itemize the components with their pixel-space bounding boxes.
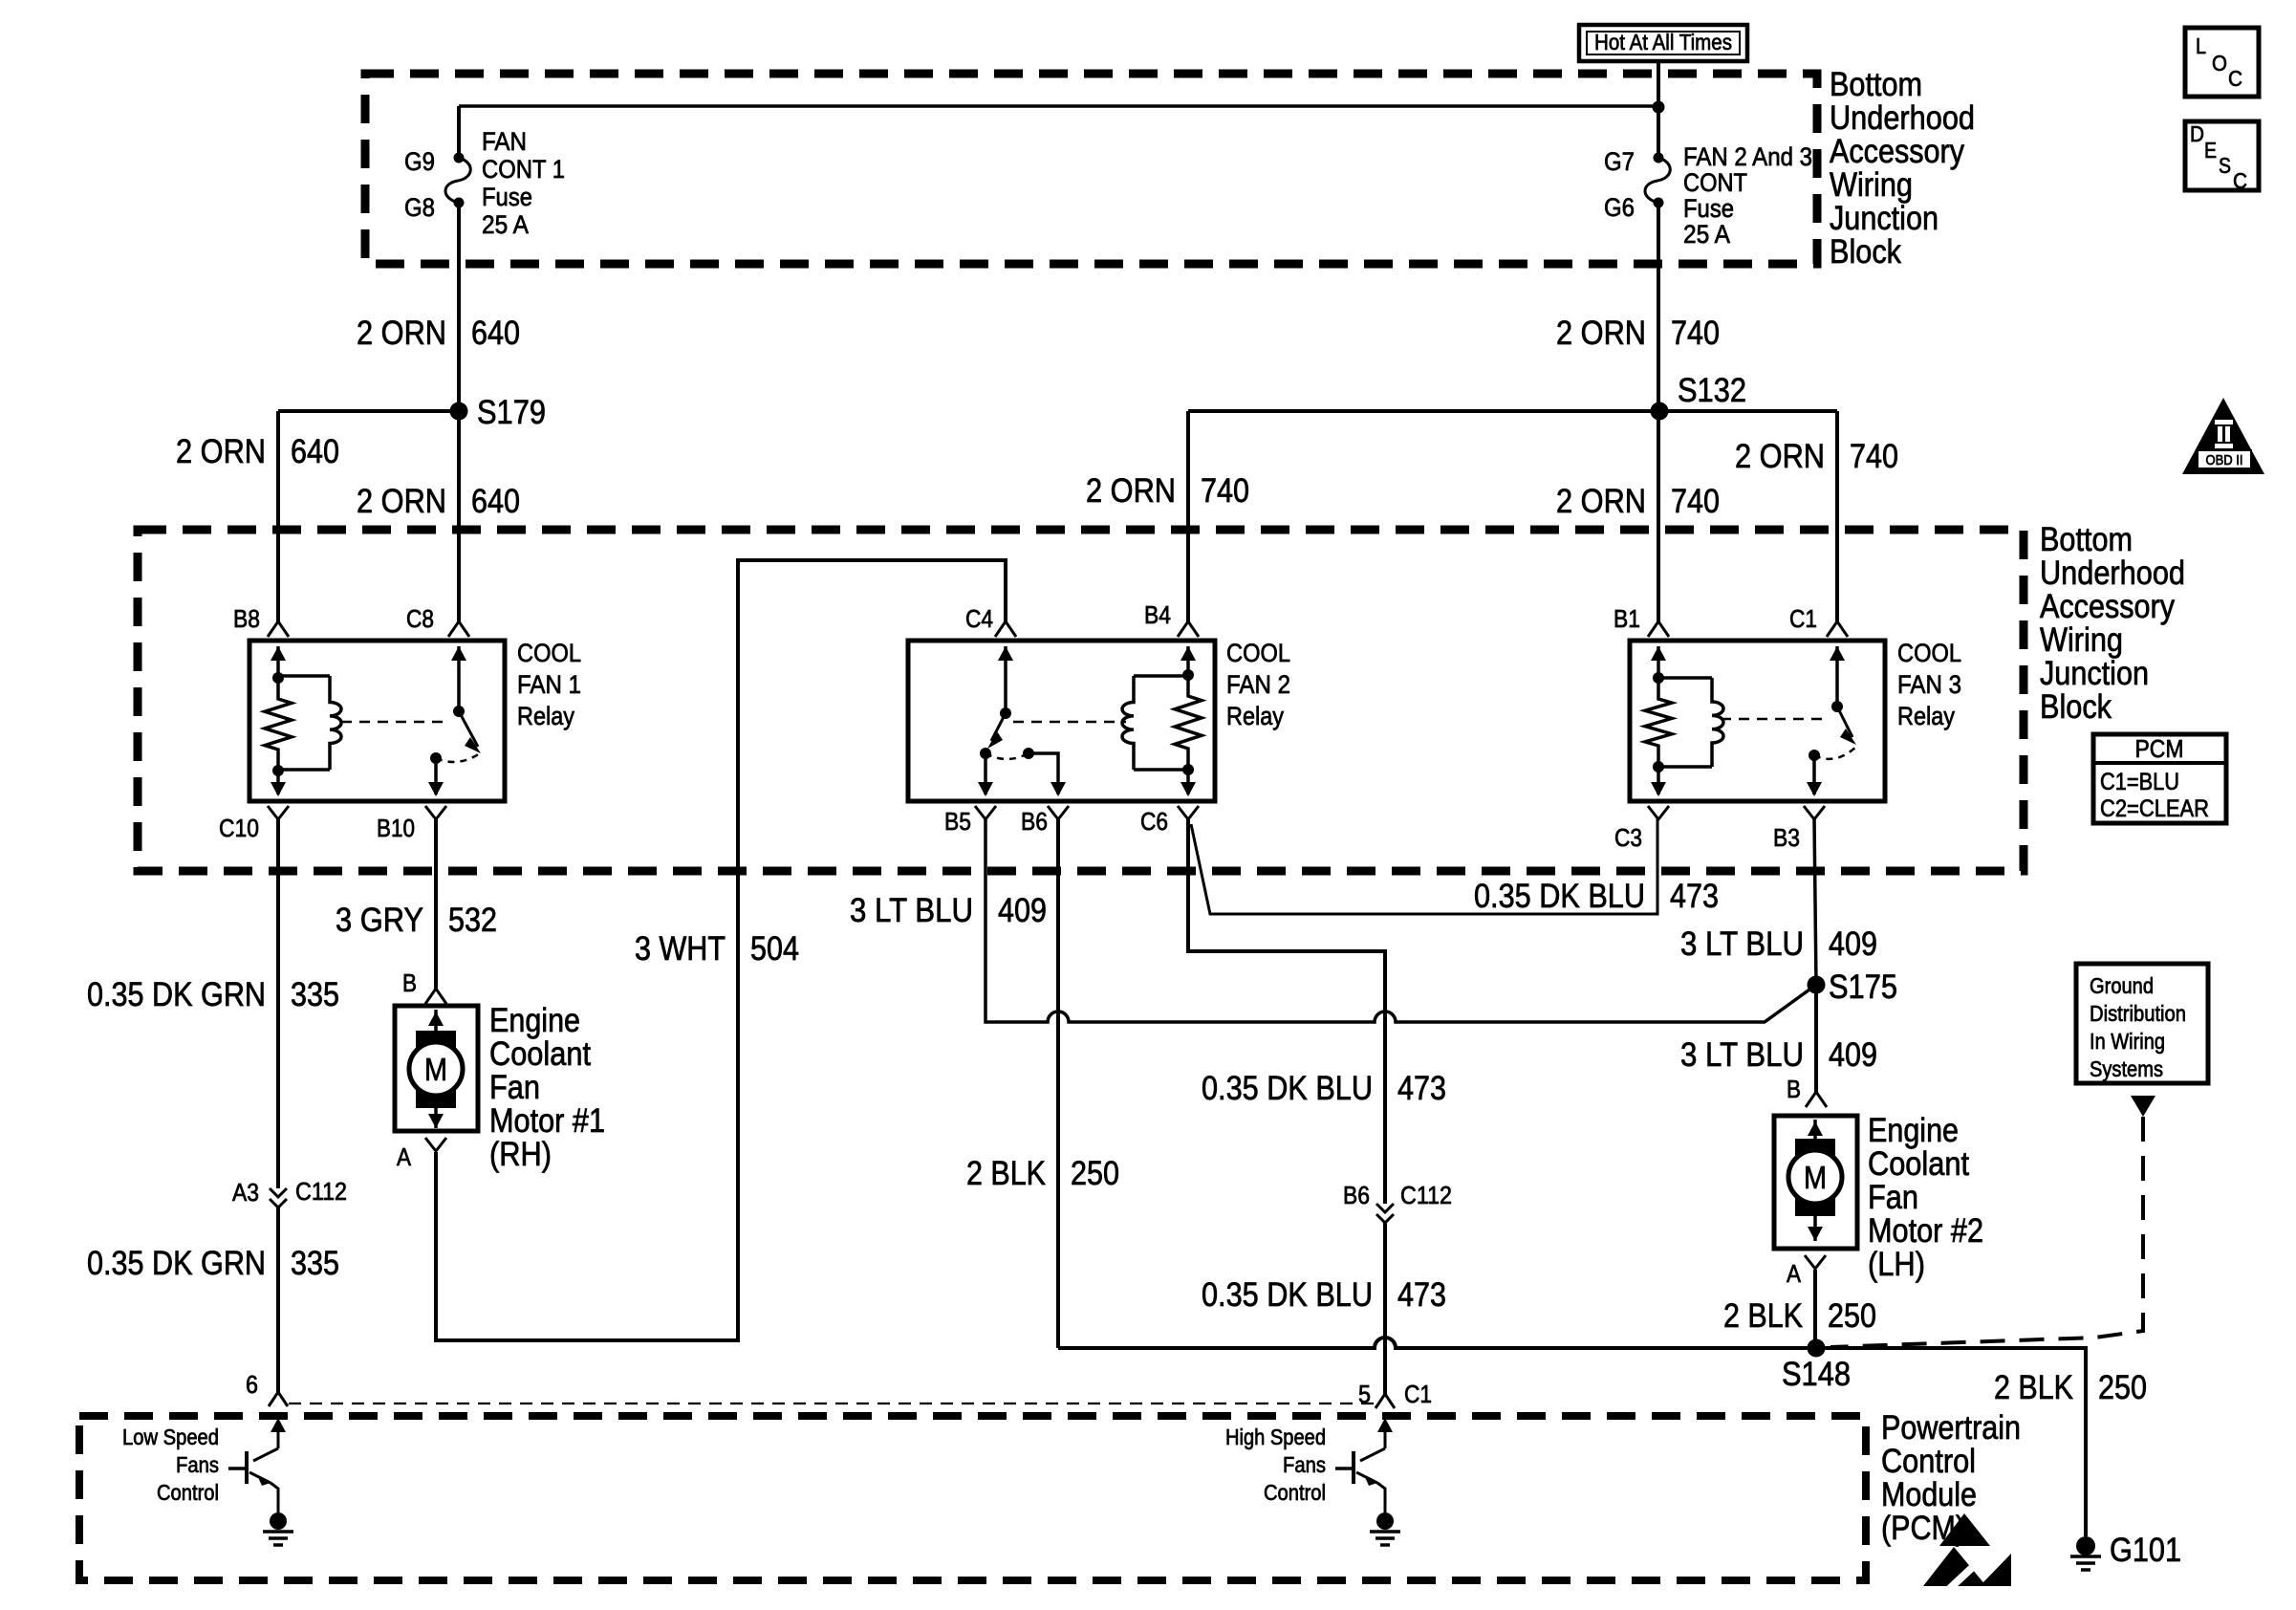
label: FAN CONT 1 Fuse 25 A	[482, 127, 565, 239]
svg-text:250: 250	[2098, 1369, 2147, 1406]
relay K3 switch pivot dot	[1831, 701, 1843, 712]
node: junction dot at fuse feed split	[1653, 101, 1665, 114]
wire: relay3 B3 down to S175	[1814, 818, 1816, 985]
svg-text:FAN 2: FAN 2	[1226, 670, 1290, 699]
svg-text:PCM: PCM	[2135, 734, 2184, 763]
svg-text:G101: G101	[2110, 1532, 2181, 1569]
relay K1 switch contact dot	[430, 752, 442, 764]
svg-text:M: M	[424, 1052, 447, 1087]
wire: motor2 A down to S148 (2 BLK 250)	[1813, 1270, 1817, 1348]
svg-text:G8: G8	[404, 193, 435, 222]
relay K2 pin B5 connector chevron	[975, 806, 996, 819]
relay K2 contact-out lead with arrow (B5)	[978, 753, 993, 796]
relay K2 coil	[1122, 676, 1134, 770]
label C8	[406, 604, 434, 633]
svg-text:Motor #1: Motor #1	[489, 1102, 605, 1140]
svg-text:C8: C8	[406, 604, 434, 633]
relay K2 contact link to B6	[1029, 753, 1066, 796]
svg-text:2 ORN: 2 ORN	[1556, 483, 1646, 520]
fuse F2 terminal dot G6	[1654, 198, 1664, 208]
svg-text:Hot At All Times: Hot At All Times	[1594, 30, 1732, 54]
fuse F1 terminal dot G9	[454, 153, 465, 163]
relay K2 switch common lead with arrow (C4)	[998, 646, 1013, 713]
relay K2 pin B4 connector chevron	[1178, 621, 1199, 637]
motor M2 feed arrow top	[1808, 1120, 1823, 1142]
relay K3 pin B1 connector chevron	[1648, 621, 1669, 637]
svg-text:3 LT BLU: 3 LT BLU	[1680, 1036, 1804, 1074]
relay K3 contact-out lead with arrow (B3)	[1807, 755, 1822, 796]
svg-text:FAN 1: FAN 1	[517, 670, 581, 699]
motor M2 box (Engine Coolant Fan Motor #2 LH)	[1774, 1116, 1857, 1249]
svg-text:Block: Block	[1830, 233, 1901, 271]
relay K2 coil link bottom	[1134, 768, 1188, 772]
relay K3 coil-in lead with arrow (B1)	[1651, 646, 1666, 678]
label B3	[1773, 823, 1800, 852]
svg-text:A: A	[1787, 1259, 1802, 1288]
svg-text:B6: B6	[1343, 1181, 1370, 1209]
svg-text:2 ORN: 2 ORN	[1735, 438, 1825, 475]
label B6 (C112)	[1343, 1181, 1370, 1209]
label: COOL FAN 3 Relay	[1897, 639, 1961, 730]
relay K3 pin B3 connector chevron	[1804, 806, 1825, 819]
svg-text:2 ORN: 2 ORN	[176, 433, 266, 470]
svg-text:6: 6	[246, 1370, 258, 1399]
relay K3 node dot top	[1653, 672, 1664, 684]
svg-text:Junction: Junction	[1830, 200, 1939, 237]
wire: ground bus 2 BLK 250 across (B6 run to S148 to G101 drop)	[1058, 1338, 2086, 1536]
svg-text:S132: S132	[1678, 372, 1746, 409]
label S175	[1829, 968, 1897, 1006]
relay K1 coil-in lead with arrow (B8)	[271, 646, 286, 678]
wire: left branch down to relay B8	[276, 411, 280, 622]
svg-text:504: 504	[750, 930, 799, 968]
svg-text:G6: G6	[1604, 193, 1635, 222]
junction block 1 dashed box (Bottom Underhood Accessory Wiring Junction Block)	[365, 74, 1817, 264]
svg-text:Powertrain: Powertrain	[1881, 1409, 2021, 1447]
svg-text:L: L	[2196, 33, 2206, 58]
splice S132 dot	[1651, 402, 1669, 421]
label: 2 BLK 250 (motor2 A)	[1723, 1297, 1876, 1335]
relay K2 resistor	[1175, 675, 1202, 770]
motor M2 pin A connector chevron	[1805, 1255, 1826, 1269]
label: 0.35 DK GRN 335 (upper)	[87, 976, 339, 1013]
svg-text:Ground: Ground	[2090, 973, 2154, 998]
svg-text:Coolant: Coolant	[1868, 1145, 1969, 1183]
splice S175 dot	[1808, 976, 1826, 994]
OBD II symbol triangle	[2182, 398, 2264, 474]
svg-text:3 LT BLU: 3 LT BLU	[850, 892, 973, 929]
label: FAN 2 And 3 CONT Fuse 25 A	[1683, 142, 1812, 249]
svg-text:Module: Module	[1881, 1476, 1977, 1513]
relay K2 pin C6 connector chevron	[1178, 806, 1199, 819]
label G8	[404, 193, 435, 222]
wire: C1 drop down to relay 3	[1835, 411, 1839, 622]
motor M1 pin B connector chevron	[425, 989, 446, 1004]
relay K1 mech linkage dashed	[341, 721, 445, 724]
svg-text:740: 740	[1671, 483, 1720, 520]
relay K2 pin C4 connector chevron	[995, 621, 1016, 637]
svg-text:335: 335	[291, 1245, 339, 1282]
relay K1 coil-out lead with arrow (C10)	[271, 771, 286, 796]
DESC reference box	[2185, 121, 2259, 193]
svg-text:C: C	[2233, 168, 2247, 193]
label C112 (left)	[295, 1177, 347, 1206]
svg-text:2 ORN: 2 ORN	[357, 483, 446, 520]
svg-text:C: C	[2228, 66, 2242, 91]
svg-text:Fans: Fans	[1283, 1452, 1326, 1477]
connector C112 pin B6 chevrons	[1376, 1204, 1394, 1223]
svg-text:3 LT BLU: 3 LT BLU	[1680, 925, 1804, 963]
label S132	[1678, 372, 1746, 409]
PCM pin 6 connector chevron	[269, 1392, 288, 1406]
svg-text:640: 640	[471, 483, 520, 520]
svg-text:Junction: Junction	[2040, 655, 2149, 692]
svg-text:FAN 2 And 3: FAN 2 And 3	[1683, 142, 1812, 171]
svg-text:Motor #2: Motor #2	[1868, 1212, 1983, 1250]
svg-text:2 BLK: 2 BLK	[1723, 1297, 1803, 1335]
svg-text:C1=BLU: C1=BLU	[2100, 769, 2179, 795]
relay K2 coil-in lead with arrow (B4)	[1180, 646, 1196, 675]
label: junction block 2 name	[2040, 521, 2185, 726]
svg-text:A3: A3	[232, 1178, 259, 1207]
svg-text:Underhood: Underhood	[1830, 99, 1975, 137]
svg-text:2 ORN: 2 ORN	[357, 315, 446, 352]
relay K3 coil-out lead with arrow (C3)	[1651, 767, 1666, 796]
relay K3 pin C3 connector chevron	[1648, 806, 1669, 819]
relay K3 box (COOL FAN 3 Relay)	[1630, 641, 1885, 801]
label: 3 WHT 504	[635, 930, 799, 968]
svg-text:C3: C3	[1614, 823, 1642, 852]
label: 2 ORN 640 (fuse1 to S179)	[357, 315, 520, 352]
ground distribution pointer arrowhead	[2131, 1096, 2155, 1117]
label: Engine Coolant Fan Motor #2 (LH)	[1868, 1112, 1983, 1283]
label: 3 LT BLU 409 (S175 to motor2)	[1680, 1036, 1877, 1074]
svg-text:473: 473	[1670, 878, 1719, 915]
label: 3 LT BLU 409 (B5)	[850, 892, 1047, 929]
label G101	[2110, 1532, 2181, 1569]
svg-text:C112: C112	[295, 1177, 347, 1206]
PCM connector thin dashed boundary	[289, 1403, 1374, 1404]
svg-text:409: 409	[1829, 1036, 1877, 1074]
transistor Q2 High Speed Fans Control driver	[1225, 1418, 1400, 1545]
svg-text:Engine: Engine	[1868, 1112, 1959, 1149]
svg-text:(LH): (LH)	[1868, 1246, 1925, 1283]
svg-text:Fuse: Fuse	[482, 183, 532, 211]
label B8	[233, 604, 260, 633]
svg-text:Engine: Engine	[489, 1002, 580, 1039]
svg-text:D: D	[2190, 121, 2204, 146]
motor M1 feed arrow top	[428, 1010, 444, 1033]
relay K1 node dot bottom	[272, 765, 284, 776]
svg-text:S175: S175	[1829, 968, 1897, 1006]
label: 0.35 DK BLU 473 (C6 to C3)	[1474, 878, 1719, 915]
label: 0.35 DK BLU 473 (lower run)	[1202, 1276, 1446, 1314]
wire: 3 WHT 504 run (relay2 C4 up, left, down to motor1 A bottom link)	[436, 560, 1006, 1340]
svg-text:C112: C112	[1400, 1181, 1452, 1209]
svg-text:CONT: CONT	[1683, 168, 1747, 197]
svg-text:473: 473	[1397, 1070, 1446, 1107]
label: 3 LT BLU 409 (B3 upper)	[1680, 925, 1877, 963]
svg-text:Bottom: Bottom	[2040, 521, 2133, 558]
relay K1 pin B10 connector chevron	[425, 806, 446, 819]
Ground Distribution In Wiring Systems reference box	[2076, 964, 2208, 1083]
PCM dashed box (Powertrain Control Module)	[79, 1416, 1866, 1580]
svg-text:473: 473	[1397, 1276, 1446, 1314]
label: COOL FAN 2 Relay	[1226, 639, 1290, 730]
svg-text:Relay: Relay	[517, 702, 574, 730]
relay K2 pin B6 connector chevron	[1048, 806, 1069, 819]
relay K1 switch dashed travel arc	[436, 753, 480, 762]
svg-text:Control: Control	[1881, 1443, 1976, 1480]
svg-text:2 BLK: 2 BLK	[966, 1155, 1046, 1192]
svg-text:Control: Control	[157, 1480, 219, 1505]
svg-text:COOL: COOL	[1226, 639, 1290, 667]
relay K1 contact-out lead with arrow (B10)	[428, 758, 444, 796]
label C6	[1140, 807, 1168, 836]
label: 2 BLK 250 (B6)	[966, 1155, 1119, 1192]
svg-text:OBD II: OBD II	[2206, 452, 2243, 468]
svg-text:B1: B1	[1614, 604, 1640, 633]
svg-text:CONT 1: CONT 1	[482, 155, 565, 184]
wire: fuse 1 output G8 down to S179	[457, 203, 461, 411]
label: 2 ORN 640 (left branch)	[176, 433, 339, 470]
wire: feed across to FAN CONT 1 fuse	[459, 104, 1658, 108]
label B4	[1144, 600, 1171, 629]
label B10	[377, 814, 415, 842]
label B6	[1021, 807, 1048, 836]
svg-text:Underhood: Underhood	[2040, 555, 2185, 592]
svg-text:409: 409	[1829, 925, 1877, 963]
motor M2 pin B connector chevron	[1806, 1092, 1827, 1107]
svg-text:FAN 3: FAN 3	[1897, 670, 1961, 699]
relay K2 coil-out lead with arrow (C6)	[1180, 770, 1196, 796]
wire: S175 down to motor2 B	[1814, 985, 1818, 1093]
relay K1 box (COOL FAN 1 Relay)	[249, 641, 505, 801]
svg-text:640: 640	[471, 315, 520, 352]
svg-text:Fans: Fans	[176, 1452, 219, 1477]
label 6 (PCM pin)	[246, 1370, 258, 1399]
svg-text:Control: Control	[1264, 1480, 1326, 1505]
label: 2 ORN 740 (S132 to relay B1)	[1556, 483, 1720, 520]
svg-text:COOL: COOL	[1897, 639, 1961, 667]
svg-text:Fan: Fan	[489, 1069, 540, 1106]
svg-text:2 BLK: 2 BLK	[1994, 1369, 2073, 1406]
svg-text:740: 740	[1671, 315, 1720, 352]
splice S148 dot	[1808, 1339, 1826, 1358]
relay K3 resistor	[1645, 678, 1672, 767]
svg-text:Accessory: Accessory	[2040, 588, 2175, 625]
svg-text:5: 5	[1358, 1380, 1371, 1408]
connector C112 pin A3 chevrons	[270, 1188, 287, 1207]
svg-text:C1: C1	[1404, 1380, 1432, 1408]
relay K1 coil link top	[278, 674, 330, 678]
ESD sensitivity symbol triangles	[1923, 1513, 2011, 1592]
svg-text:C6: C6	[1140, 807, 1168, 836]
label: 0.35 DK GRN 335 (lower)	[87, 1245, 339, 1282]
wire: relay2 B6 down to S148 run (2 BLK 250)	[1056, 818, 1060, 1348]
svg-text:Fan: Fan	[1868, 1179, 1918, 1216]
svg-text:0.35 DK BLU: 0.35 DK BLU	[1202, 1276, 1373, 1314]
svg-text:250: 250	[1828, 1297, 1876, 1335]
relay K2 node dot top	[1182, 669, 1194, 681]
svg-text:Low Speed: Low Speed	[122, 1425, 219, 1449]
svg-text:Accessory: Accessory	[1830, 133, 1964, 170]
relay K2 coil link top	[1134, 674, 1188, 678]
relay K3 switch arm	[1837, 707, 1856, 745]
label: 2 ORN 640 (S179 to relay C8)	[357, 483, 520, 520]
relay K2 node dot bottom	[1182, 764, 1194, 775]
svg-text:Bottom: Bottom	[1830, 66, 1922, 103]
svg-text:B3: B3	[1773, 823, 1800, 852]
relay K2 switch arm	[987, 713, 1006, 749]
label C4	[965, 604, 993, 633]
PCM connector legend box	[2093, 734, 2226, 823]
svg-text:B8: B8	[233, 604, 260, 633]
relay K1 pin C10 connector chevron	[268, 806, 289, 819]
svg-text:250: 250	[1071, 1155, 1119, 1192]
svg-text:335: 335	[291, 976, 339, 1013]
wire: S179 branch left	[278, 409, 459, 413]
relay K1 switch pivot dot	[453, 706, 465, 717]
ground G101 symbol	[2070, 1536, 2101, 1570]
motor M1 box (Engine Coolant Fan Motor #1 RH)	[395, 1006, 478, 1131]
relay K1 switch common lead with arrow (C8)	[451, 646, 466, 711]
wire: S132 branch left to B4 drop	[1188, 409, 1659, 413]
label C10	[219, 814, 259, 842]
svg-text:740: 740	[1850, 438, 1898, 475]
svg-text:G9: G9	[404, 147, 435, 176]
relay K2 box (COOL FAN 2 Relay)	[908, 641, 1215, 801]
svg-text:3 WHT: 3 WHT	[635, 930, 726, 968]
label A3	[232, 1178, 259, 1207]
label: Powertrain Control Module (PCM)	[1881, 1409, 2021, 1547]
label G9	[404, 147, 435, 176]
svg-text:S: S	[2219, 153, 2231, 178]
svg-text:FAN: FAN	[482, 127, 527, 156]
label S148	[1782, 1356, 1851, 1393]
relay K3 coil	[1712, 678, 1723, 767]
wire: relay2 B5 down and across to S175 (3 LT BLU 409)	[986, 818, 1816, 1022]
svg-text:C4: C4	[965, 604, 993, 633]
svg-text:25 A: 25 A	[482, 210, 529, 239]
relay K3 mech linkage dashed	[1721, 718, 1824, 721]
label G6	[1604, 193, 1635, 222]
wire: S132 branch right to C1 drop	[1659, 409, 1837, 413]
motor M2 armature symbol	[1788, 1139, 1842, 1216]
svg-text:S179: S179	[477, 394, 546, 431]
label G7	[1604, 147, 1635, 176]
svg-text:2 ORN: 2 ORN	[1086, 472, 1176, 510]
wire: feed drop to fuse 1 G9	[457, 106, 461, 159]
PCM pin 5 connector chevron	[1375, 1394, 1395, 1408]
wire: relay2 C6 branch to relay3 C3 (0.35 DK BLU 473)	[1191, 818, 1657, 914]
label B1	[1614, 604, 1640, 633]
label 5 (PCM pin)	[1358, 1380, 1371, 1408]
label: 3 GRY 532	[336, 902, 497, 939]
svg-text:B6: B6	[1021, 807, 1048, 836]
svg-text:0.35 DK BLU: 0.35 DK BLU	[1474, 878, 1645, 915]
relay K3 switch contact dot	[1809, 750, 1820, 761]
label S179	[477, 394, 546, 431]
label: 2 ORN 740 (fuse2 to S132)	[1556, 315, 1720, 352]
label: 2 BLK 250 (to G101)	[1994, 1369, 2147, 1406]
svg-text:Relay: Relay	[1226, 702, 1284, 730]
svg-text:C10: C10	[219, 814, 259, 842]
label: COOL FAN 1 Relay	[517, 639, 581, 730]
svg-text:Relay: Relay	[1897, 702, 1955, 730]
label: Engine Coolant Fan Motor #1 (RH)	[489, 1002, 605, 1173]
svg-text:M: M	[1804, 1160, 1827, 1195]
svg-text:532: 532	[448, 902, 497, 939]
motor M1 pin A connector chevron	[425, 1138, 446, 1151]
svg-text:S148: S148	[1782, 1356, 1851, 1393]
LOC reference box	[2185, 28, 2259, 97]
label C112 (right)	[1400, 1181, 1452, 1209]
wire: relay1 C10 down (0.35 DK GRN 335)	[276, 818, 280, 1188]
svg-text:Coolant: Coolant	[489, 1035, 591, 1073]
label: junction block 1 name	[1830, 66, 1975, 271]
motor M1 return arrow bottom	[428, 1108, 444, 1128]
svg-text:2 ORN: 2 ORN	[1556, 315, 1646, 352]
svg-text:Fuse: Fuse	[1683, 194, 1734, 223]
label A (motor2)	[1787, 1259, 1802, 1288]
splice S179 dot	[450, 402, 468, 421]
relay K1 switch arm	[459, 711, 481, 753]
relay K2 switch contact dot B6	[1023, 748, 1034, 759]
svg-text:409: 409	[998, 892, 1047, 929]
svg-text:640: 640	[291, 433, 339, 470]
wire: S132 down to relay B1	[1657, 411, 1660, 622]
svg-text:G7: G7	[1604, 147, 1635, 176]
svg-text:In Wiring: In Wiring	[2090, 1029, 2165, 1054]
svg-text:O: O	[2212, 51, 2227, 76]
label: 2 ORN 740 (C1 drop)	[1735, 438, 1898, 475]
motor M1 armature symbol	[409, 1031, 463, 1108]
relay K1 resistor	[265, 678, 292, 771]
svg-text:COOL: COOL	[517, 639, 581, 667]
label B5	[944, 807, 971, 836]
svg-text:A: A	[397, 1142, 412, 1171]
wire: feed drop to fuse 2 G7	[1657, 107, 1660, 159]
fuse F2 terminal dot G7	[1654, 153, 1664, 163]
svg-text:E: E	[2204, 138, 2217, 163]
wire: relay1 B10 down to motor1 B (3 GRY 532)	[434, 818, 438, 990]
svg-text:0.35 DK GRN: 0.35 DK GRN	[87, 976, 266, 1013]
label A (motor1)	[397, 1142, 412, 1171]
svg-text:C2=CLEAR: C2=CLEAR	[2100, 795, 2209, 822]
svg-text:Wiring: Wiring	[1830, 166, 1913, 204]
wire: relay2 C6 down, right and down to PCM pin 5 (0.35 DK BLU 473)	[1188, 818, 1385, 1394]
svg-text:25 A: 25 A	[1683, 220, 1730, 249]
wire: B4 drop down to relay 2	[1186, 411, 1190, 622]
fuse F2 element (FAN 2 And 3 CONT Fuse 25 A)	[1645, 158, 1670, 203]
relay K3 switch common lead with arrow (C1)	[1830, 646, 1845, 707]
svg-text:B4: B4	[1144, 600, 1171, 629]
label C1	[1789, 604, 1817, 633]
motor M2 return arrow bottom	[1808, 1216, 1823, 1241]
relay K1 pin B8 connector chevron	[268, 621, 289, 637]
label: 0.35 DK BLU 473 (upper run)	[1202, 1070, 1446, 1107]
relay K2 mech linkage dashed	[1013, 721, 1126, 724]
svg-text:(RH): (RH)	[489, 1136, 552, 1173]
svg-text:Wiring: Wiring	[2040, 621, 2123, 659]
relay K3 coil link bottom	[1658, 765, 1712, 769]
svg-text:B: B	[1787, 1075, 1801, 1103]
svg-text:3 GRY: 3 GRY	[336, 902, 423, 939]
fuse F1 element (FAN CONT 1 Fuse 25 A)	[445, 158, 470, 203]
relay K1 pin C8 connector chevron	[448, 621, 469, 637]
fuse F1 terminal dot G8	[454, 198, 465, 208]
